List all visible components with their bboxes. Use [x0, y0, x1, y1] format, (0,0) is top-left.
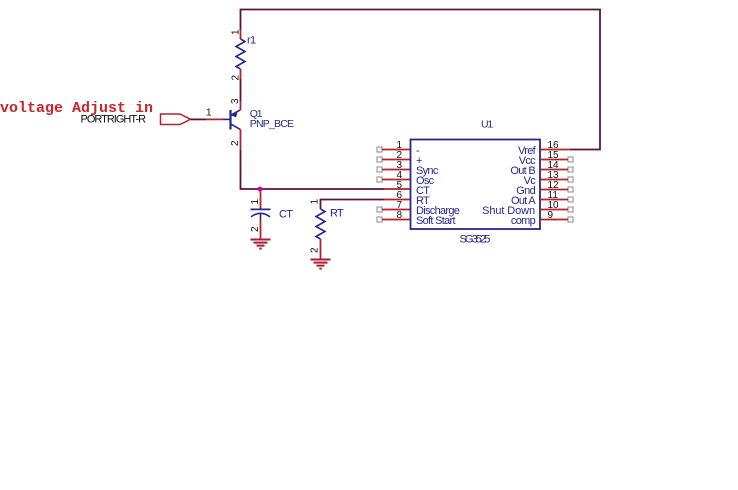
junction node CT	[258, 187, 263, 192]
U1 pin 8 (Soft Start)	[377, 210, 455, 227]
U1 pin 7 (Discharge)	[377, 200, 460, 217]
svg-text:2: 2	[310, 247, 321, 253]
wire r1 pin2 to Q1 collector	[240, 79, 242, 101]
ground (below RT)	[311, 260, 331, 269]
svg-text:1: 1	[250, 199, 261, 205]
svg-text:SG3525: SG3525	[460, 234, 491, 246]
U1 pin 14 (Out B)	[510, 160, 573, 177]
svg-text:PNP_BCE: PNP_BCE	[250, 118, 294, 130]
U1 pin 6 (RT)	[384, 190, 430, 207]
svg-text:9: 9	[548, 210, 554, 221]
svg-text:RT: RT	[330, 208, 344, 220]
U1 pin 11 (Out A)	[511, 190, 573, 207]
wire Vref loop (r1 top to U1 pin16)	[241, 10, 601, 150]
wire Q1 emitter to U1 pin5 (CT net)	[241, 150, 385, 189]
resistor r1	[231, 29, 256, 81]
svg-text:r1: r1	[247, 35, 256, 47]
svg-text:CT: CT	[279, 209, 293, 221]
U1 pin 16 (Vref)	[518, 140, 570, 157]
U1 pin 5 (CT)	[384, 180, 430, 197]
svg-text:comp: comp	[511, 215, 536, 227]
U1 pin 4 (Osc)	[377, 170, 435, 187]
U1 pin 9 (comp)	[511, 210, 573, 227]
U1 pin 2 (+)	[377, 150, 422, 167]
U1 pin 12 (Gnd)	[516, 180, 573, 197]
capacitor CT	[250, 189, 293, 239]
op-amp U1 (SG3525 body)	[411, 119, 541, 246]
svg-text:PORTRIGHT-R: PORTRIGHT-R	[81, 114, 147, 126]
svg-text:1: 1	[231, 29, 242, 35]
resistor RT	[310, 199, 345, 260]
U1 pin 10 (ShutDown)	[482, 200, 573, 217]
wire RT pin1 to U1 pin6 (RT net)	[321, 200, 385, 210]
svg-text:1: 1	[206, 108, 212, 119]
U1 pin 3 (Sync)	[377, 160, 439, 177]
svg-text:Soft Start: Soft Start	[416, 215, 455, 227]
svg-text:8: 8	[396, 210, 402, 221]
svg-text:3: 3	[230, 98, 241, 104]
port PORTRIGHT-R	[81, 108, 223, 126]
U1 pin 1 (-)	[377, 140, 420, 157]
svg-text:2: 2	[230, 140, 241, 146]
transistor Q1 PNP_BCE	[223, 98, 295, 150]
U1 pin 15 (Vcc)	[519, 150, 573, 167]
svg-text:U1: U1	[481, 119, 493, 131]
svg-text:2: 2	[250, 226, 261, 232]
ground (below CT)	[251, 240, 271, 249]
svg-text:1: 1	[310, 199, 321, 205]
U1 pin 13 (Vc)	[524, 170, 573, 187]
